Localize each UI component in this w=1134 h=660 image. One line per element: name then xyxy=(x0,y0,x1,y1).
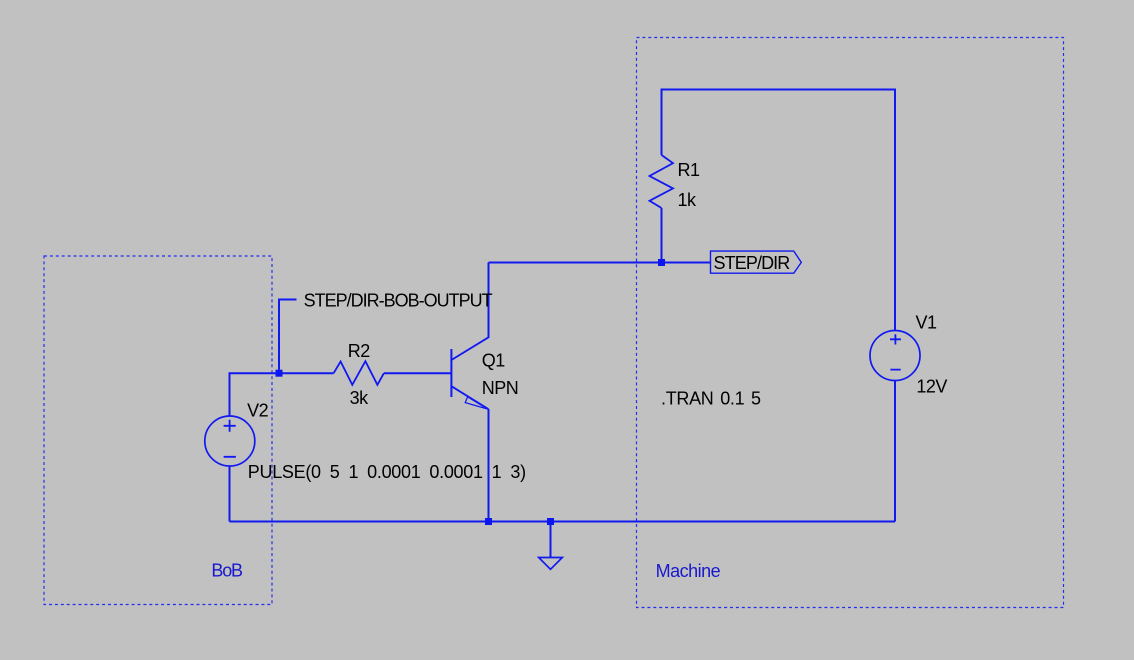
wire emitter vertical xyxy=(488,409,490,522)
wire collector net horizontal xyxy=(489,262,711,264)
svg-text:Machine: Machine xyxy=(656,561,721,581)
junction at R1 bottom node xyxy=(658,259,665,266)
resistor R1 xyxy=(650,155,674,208)
wire collector vertical xyxy=(488,263,490,339)
svg-text:R1: R1 xyxy=(678,160,700,180)
svg-text:.TRAN 0.1 5: .TRAN 0.1 5 xyxy=(661,389,761,409)
voltage source V2 xyxy=(205,416,255,466)
resistor R2 xyxy=(334,361,384,385)
junction at base node xyxy=(276,370,283,377)
junction at emitter bottom xyxy=(485,518,492,525)
wire R1 bottom xyxy=(661,208,663,263)
box BoB (dashed boundary) xyxy=(44,256,272,605)
wire label stub xyxy=(279,300,297,370)
junction at ground node xyxy=(547,518,554,525)
voltage source V1 xyxy=(870,331,920,381)
svg-text:3k: 3k xyxy=(350,388,370,408)
wire from V2 to base node xyxy=(230,373,280,416)
svg-text:Q1: Q1 xyxy=(482,351,506,371)
svg-text:STEP/DIR: STEP/DIR xyxy=(714,253,791,273)
wire V2 bottom xyxy=(229,466,231,522)
svg-text:NPN: NPN xyxy=(482,378,519,398)
svg-text:BoB: BoB xyxy=(211,561,243,581)
box Machine (dashed boundary) xyxy=(637,38,1064,608)
transistor Q1 xyxy=(451,337,488,409)
wire V1 bottom xyxy=(894,381,896,522)
svg-text:PULSE(0 5 1 0.0001 0.0001 1 3): PULSE(0 5 1 0.0001 0.0001 1 3) xyxy=(248,462,526,482)
svg-text:V1: V1 xyxy=(916,312,938,332)
wire base left segment xyxy=(279,372,334,374)
svg-text:1k: 1k xyxy=(678,190,698,210)
svg-text:V2: V2 xyxy=(247,401,269,421)
svg-text:R2: R2 xyxy=(348,341,370,361)
svg-text:STEP/DIR-BOB-OUTPUT: STEP/DIR-BOB-OUTPUT xyxy=(304,290,493,310)
wire bottom run xyxy=(230,521,896,523)
ground xyxy=(550,525,552,558)
wire top run (R1 top to V1 top) xyxy=(662,90,896,331)
wire base right segment xyxy=(384,372,452,374)
net flag STEP/DIR xyxy=(711,251,802,273)
svg-text:12V: 12V xyxy=(916,377,947,397)
